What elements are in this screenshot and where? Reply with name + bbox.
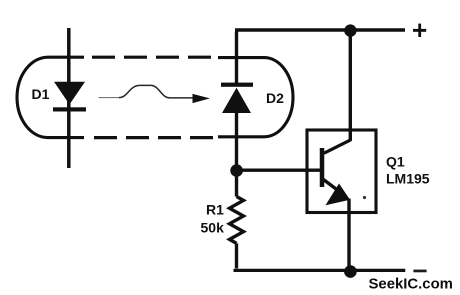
− terminal stub [413, 270, 426, 273]
photodiode D2 envelope (right capsule) [218, 58, 293, 137]
transistor Q1 (collector diagonal) [324, 140, 351, 153]
node: emitter / rail junction [344, 265, 357, 278]
wire: base lead [237, 169, 324, 172]
transistor Q1 (base bar) [320, 148, 325, 187]
light arrow (wavy) [99, 85, 211, 103]
svg-text:D2: D2 [266, 90, 284, 106]
diode D1 (triangle + cathode bar) [53, 82, 86, 112]
node: + rail / collector junction [344, 24, 356, 36]
wire: collector lead from + rail [349, 30, 352, 141]
transistor Q1 (emitter diagonal + arrowhead) [323, 179, 350, 205]
diode D2 (cathode bar + triangle) [221, 83, 253, 113]
svg-text:LM195: LM195 [386, 171, 430, 187]
photodiode D1 envelope (left capsule) [17, 57, 84, 137]
stray speck (scan artifact) [363, 196, 366, 199]
svg-text:R1: R1 [206, 202, 224, 218]
wire: bottom rail [234, 269, 406, 272]
svg-text:SeekIC.com: SeekIC.com [369, 276, 453, 292]
dashed optical-coupling line (bottom) [94, 136, 218, 139]
wire: R1 bottom lead [235, 243, 238, 268]
wire: emitter lead down to rail [347, 199, 350, 271]
svg-text:50k: 50k [201, 220, 225, 236]
svg-text:Q1: Q1 [386, 153, 405, 169]
svg-text:D1: D1 [32, 86, 50, 102]
node: base / R1 / D2 junction [230, 164, 243, 177]
+ terminal [413, 24, 426, 37]
transistor Q1 (box outline) [307, 130, 376, 213]
dashed optical-coupling line (top) [92, 56, 218, 59]
wire: D2 anode down to R1 [235, 113, 238, 197]
wire: D1 vertical lead [67, 28, 71, 168]
wire: D2 cathode up to + rail [235, 30, 405, 84]
resistor R1 (zigzag) [230, 197, 244, 244]
